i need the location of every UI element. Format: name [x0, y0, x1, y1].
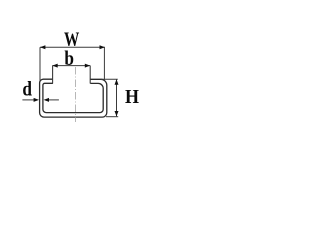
dimension H: dimension line: [116, 79, 118, 116]
C-rail profile outer contour: [40, 79, 107, 117]
dimension b: right extension line / lip end cap: [89, 66, 91, 84]
dimension H: bottom arrowhead: [115, 111, 119, 116]
dimension d: right leader with left-pointing arrowhead: [47, 99, 59, 101]
dimension b: dimension line: [52, 65, 90, 67]
dimension H: top arrowhead: [115, 79, 119, 84]
C-rail profile inner contour: [43, 83, 103, 112]
dimension H: top extension line: [101, 78, 118, 80]
dimension W: right arrowhead: [100, 45, 105, 49]
svg-text:b: b: [64, 46, 74, 70]
dimension W: dimension line: [40, 46, 105, 48]
vertical centerline (dash-dot): [75, 67, 77, 122]
dimension b: right arrowhead: [85, 64, 90, 68]
dimension W: left arrowhead: [40, 45, 45, 49]
svg-text:H: H: [125, 86, 140, 108]
dimension W: left extension line: [39, 47, 41, 81]
svg-text:d: d: [22, 78, 32, 100]
dimension b: left extension line / lip end cap: [52, 66, 54, 84]
dimension H: bottom extension line: [106, 116, 118, 118]
dimension d: left leader with right-pointing arrowhead: [22, 99, 36, 101]
dimension W: right extension line: [103, 47, 105, 80]
dimension b: left arrowhead: [52, 64, 57, 68]
